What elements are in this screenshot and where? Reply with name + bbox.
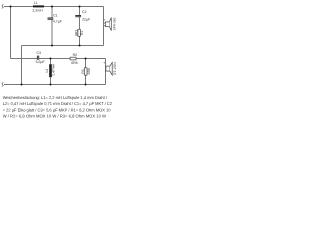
capacitor C1 — [48, 18, 54, 20]
wire tweeter rail — [11, 58, 106, 60]
svg-text:R2: R2 — [73, 53, 78, 57]
svg-text:+: + — [103, 18, 105, 22]
node bottom-return — [21, 84, 23, 86]
node bottomrail-R1 — [79, 45, 81, 47]
node top-C2 — [79, 6, 81, 8]
node top-C1 — [51, 6, 53, 8]
node bottomrail-C1 — [51, 45, 53, 47]
node rail2-R3 — [85, 58, 87, 60]
svg-text:R3: R3 — [81, 69, 85, 73]
resistor R1 — [78, 29, 81, 36]
wire R3 branch — [85, 59, 87, 85]
node rail2-L2 — [50, 58, 52, 60]
node bottom-L2 — [50, 84, 52, 86]
wire woofer return vertical — [21, 46, 23, 85]
terminal input + — [2, 5, 4, 9]
wire top rail — [4, 6, 104, 8]
svg-text:SPH-165: SPH-165 — [113, 18, 117, 31]
capacitor C3 — [37, 56, 39, 60]
svg-text:2,2mH: 2,2mH — [32, 9, 43, 13]
svg-text:22µF: 22µF — [82, 18, 90, 22]
wire tweeter vertical — [105, 59, 107, 85]
svg-text:C2: C2 — [82, 10, 87, 14]
svg-text:L1: L1 — [34, 1, 38, 5]
wire input vertical to tweeter rail — [10, 7, 12, 59]
loudspeaker tweeter — [106, 63, 112, 76]
loudspeaker woofer — [105, 18, 111, 31]
resistor R2 — [70, 57, 76, 60]
inductor L1 — [33, 5, 44, 7]
svg-text:0,47mH: 0,47mH — [51, 63, 55, 75]
wire L2 branch — [50, 59, 52, 85]
svg-text:R1: R1 — [80, 31, 84, 35]
svg-text:L2= 0,47 mH Luftspule 0,71 mm: L2= 0,47 mH Luftspule 0,71 mm Draht / C1… — [3, 101, 113, 106]
node top-in — [10, 6, 12, 8]
svg-text:= 22 µF Elko glatt / C3= 5,6 µ: = 22 µF Elko glatt / C3= 5,6 µF MKP / R1… — [3, 107, 111, 112]
svg-text:+: + — [103, 61, 105, 65]
terminal input - — [2, 83, 4, 87]
wire woofer right vertical — [103, 7, 105, 46]
capacitor C2 — [75, 15, 81, 17]
svg-text:6R8: 6R8 — [71, 61, 77, 65]
node bottom-R3 — [85, 84, 87, 86]
svg-text:W / R2= 6,8 Ohm MOX 10 W / R3=: W / R2= 6,8 Ohm MOX 10 W / R3= 6,8 Ohm M… — [3, 114, 106, 119]
wire woofer bottom rail — [22, 45, 104, 47]
resistor R3 — [84, 68, 87, 75]
svg-text:8R2: 8R2 — [74, 30, 78, 36]
wire C1 branch — [51, 7, 53, 46]
wire C2 R1 branch — [79, 7, 81, 46]
wire tweeter stubs — [105, 67, 108, 71]
svg-text:C3: C3 — [37, 51, 42, 55]
svg-text:4,7µF: 4,7µF — [53, 20, 62, 24]
inductor L2 — [49, 64, 52, 77]
svg-text:C1: C1 — [53, 13, 58, 17]
wire bottom rail — [4, 84, 106, 86]
svg-text:DT-25N: DT-25N — [113, 62, 117, 76]
wire woofer stubs — [104, 23, 106, 26]
svg-text:6R8: 6R8 — [87, 68, 91, 74]
svg-text:Weichenbestückung: L1= 2,2 mH: Weichenbestückung: L1= 2,2 mH Luftspule … — [3, 95, 108, 100]
svg-text:5,6µF: 5,6µF — [36, 60, 45, 64]
svg-text:L2: L2 — [45, 69, 49, 73]
